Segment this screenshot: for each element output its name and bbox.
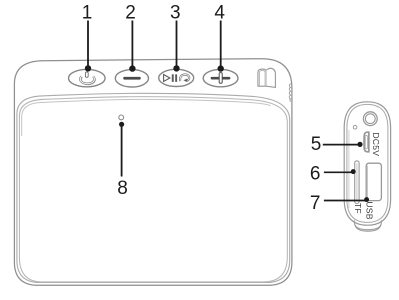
- side view inner line: [347, 104, 388, 222]
- leader dot 4: [218, 65, 224, 71]
- svg-text:3: 3: [170, 3, 181, 24]
- strap loop inner line: [259, 71, 265, 86]
- mic hole: [353, 125, 357, 129]
- leader dot 2: [129, 65, 135, 71]
- leader dot 6: [351, 169, 356, 174]
- TF slot inner line: [356, 164, 358, 202]
- reset button circle: [363, 112, 377, 126]
- side foot outer rim: [354, 220, 381, 229]
- speaker panel lip: [19, 97, 287, 282]
- leader line 3: [176, 21, 178, 67]
- strap loop side face: [266, 68, 275, 87]
- side view outer capsule: [344, 102, 390, 225]
- micro-USB inner slot: [365, 135, 367, 149]
- svg-text:1: 1: [82, 3, 93, 24]
- leader dot 3: [173, 65, 179, 71]
- leader dot 5: [357, 142, 362, 147]
- loop arrow: [180, 75, 189, 82]
- pause bars: [172, 74, 174, 82]
- leader dot 8: [119, 122, 124, 127]
- front face edge line: [17, 93, 290, 282]
- side face seam line: [348, 130, 350, 208]
- USB port inner edge: [367, 166, 369, 199]
- leader line 2: [131, 21, 133, 67]
- play/pause button oval (3): [159, 69, 194, 86]
- leader line 6: [324, 171, 352, 173]
- strap loop front face: [258, 69, 267, 86]
- leader dot 1: [85, 65, 91, 71]
- side foot bottom rim: [355, 225, 381, 232]
- svg-text:8: 8: [117, 178, 128, 199]
- play triangle: [164, 75, 170, 82]
- svg-text:TF: TF: [353, 203, 363, 214]
- leader dot 7: [364, 197, 369, 202]
- LED hole: [119, 115, 124, 120]
- svg-text:DC5V: DC5V: [371, 132, 381, 156]
- micro-USB port DC5V: [364, 132, 369, 152]
- panel inner lip top line: [22, 99, 271, 136]
- USB port: [366, 163, 381, 200]
- svg-text:6: 6: [310, 164, 321, 185]
- plus icon: [211, 73, 231, 84]
- volume-up button oval (4): [203, 69, 238, 86]
- speaker body silhouette (front view): [14, 59, 292, 286]
- power button oval (1): [69, 69, 106, 86]
- leader line 8: [121, 125, 123, 177]
- edge ridges: [289, 84, 290, 102]
- svg-text:USB: USB: [364, 201, 374, 219]
- leader line 1: [87, 21, 89, 67]
- leader line 7: [324, 200, 366, 202]
- svg-text:2: 2: [125, 3, 136, 24]
- TF card slot: [355, 161, 359, 204]
- minus bar: [123, 77, 141, 80]
- power icon: [80, 72, 95, 85]
- leader line 4: [220, 21, 222, 67]
- volume-down button oval (2): [115, 70, 148, 87]
- leader line 5: [323, 144, 359, 146]
- svg-text:5: 5: [311, 134, 322, 155]
- svg-text:7: 7: [310, 193, 321, 214]
